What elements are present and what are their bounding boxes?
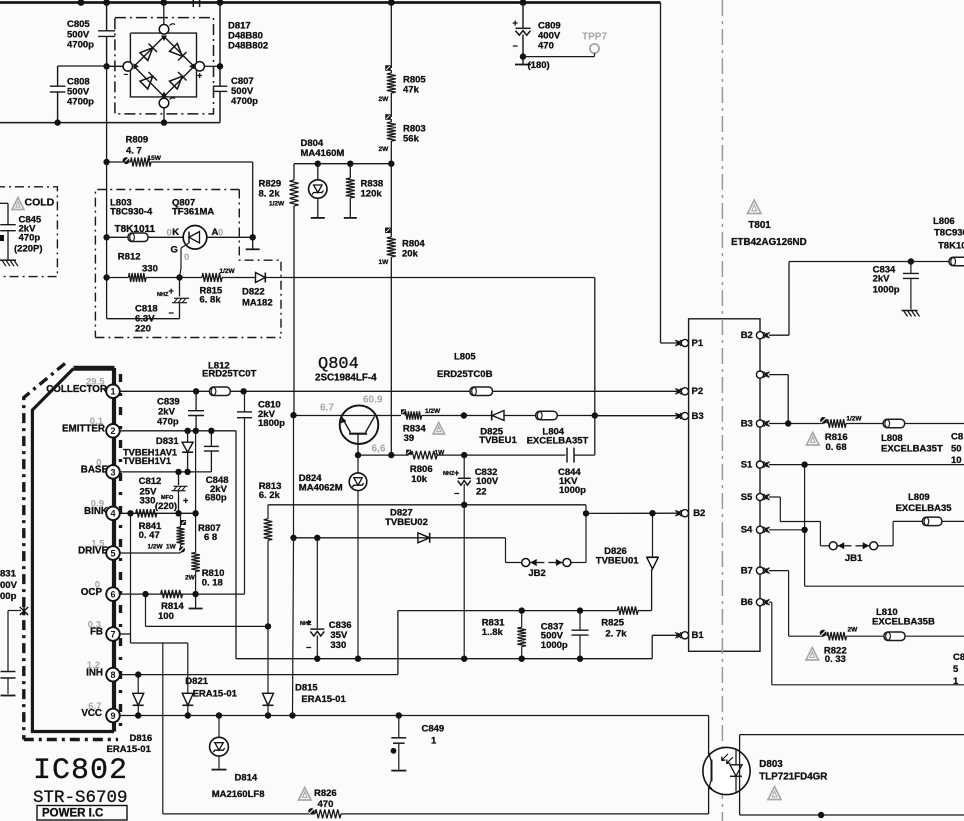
COLD dashed box [0, 187, 57, 277]
svg-text:6.7: 6.7 [320, 402, 334, 413]
svg-text:470: 470 [538, 41, 554, 52]
svg-text:FB: FB [90, 627, 103, 638]
resistor R813 [259, 481, 282, 627]
wire D822 net riser [594, 278, 596, 416]
svg-text:B6: B6 [741, 597, 753, 608]
svg-text:NHZ: NHZ [300, 621, 312, 627]
svg-text:K: K [172, 227, 179, 238]
wire pin9 VCC line [119, 715, 708, 717]
svg-text:POWER I.C: POWER I.C [42, 808, 103, 820]
svg-text:(220): (220) [155, 501, 177, 512]
resistor R810 [185, 553, 224, 595]
svg-text:R809: R809 [126, 135, 149, 146]
svg-text:+: + [169, 286, 174, 296]
wire common bottom line [236, 658, 652, 660]
node C807 top junction [217, 63, 223, 69]
pin unnamed secondary [756, 371, 769, 378]
svg-text:60.9: 60.9 [363, 394, 383, 405]
node bottom R831 [519, 656, 525, 662]
wire emitter vertical [235, 431, 237, 659]
node base net D827 line [290, 535, 296, 541]
svg-text:0: 0 [218, 228, 223, 239]
svg-text:1/2W: 1/2W [220, 268, 236, 275]
jumper JB2 [506, 538, 587, 579]
node top bus junction x106.6 [103, 0, 110, 6]
warning triangle COLD [12, 198, 24, 210]
inductor L806 [933, 216, 964, 266]
resistor R805 [379, 65, 427, 117]
label C8xx right edge top [951, 432, 963, 466]
svg-text:TPP7: TPP7 [582, 31, 607, 42]
wire base net down [293, 415, 295, 538]
diode bridge D817 diamond and diodes [134, 36, 195, 98]
svg-text:TVBEU02: TVBEU02 [385, 517, 428, 528]
svg-text:D822: D822 [242, 287, 265, 298]
svg-text:0. 33: 0. 33 [825, 654, 846, 665]
svg-text:DRIVE: DRIVE [78, 546, 108, 557]
diode D822 [242, 273, 273, 309]
svg-text:C812: C812 [139, 476, 162, 487]
wire x106 left rail down [106, 66, 108, 318]
node C832 bottom [461, 502, 467, 508]
wire B2 line [586, 512, 681, 514]
ground R810 [189, 594, 203, 608]
capacitor C812 [139, 472, 189, 513]
svg-text:B3: B3 [741, 418, 753, 429]
svg-text:4: 4 [110, 509, 115, 519]
svg-text:R826: R826 [314, 788, 337, 799]
svg-text:1: 1 [431, 736, 437, 747]
wire D827 line [294, 537, 506, 539]
svg-text:330: 330 [142, 264, 158, 275]
svg-text:C805: C805 [67, 19, 90, 30]
wire B3 secondary row [769, 423, 964, 425]
inductor L803 T8K1011 [103, 224, 183, 242]
svg-text:S4: S4 [741, 525, 753, 536]
wire secondary unnamed pin [769, 375, 788, 424]
node emitter R804 [388, 452, 394, 458]
label C8xx right edge bottom [953, 652, 964, 687]
capacitor C832 [443, 455, 499, 505]
wire FB down rail [162, 643, 164, 814]
svg-text:NHZ: NHZ [157, 292, 169, 298]
svg-text:1W: 1W [435, 450, 446, 457]
svg-text:6 8: 6 8 [204, 532, 217, 543]
svg-text:120k: 120k [361, 189, 383, 200]
svg-text:P1: P1 [692, 338, 704, 349]
pin 2 EMITTER [62, 416, 120, 437]
svg-text:00V: 00V [0, 580, 18, 591]
pin 6 OCP [81, 580, 120, 601]
svg-text:BASE: BASE [81, 465, 109, 476]
thyristor Q807 [167, 226, 253, 264]
svg-text:P2: P2 [692, 386, 704, 397]
node emitter detour R813 [265, 623, 271, 629]
svg-text:−: − [124, 70, 129, 79]
node Q807 anode junction [250, 234, 256, 240]
svg-text:5: 5 [110, 548, 115, 558]
resistor R838 [344, 161, 383, 218]
svg-text:T8K101: T8K101 [938, 240, 964, 251]
svg-text:C8: C8 [953, 652, 964, 663]
wire bottom line [163, 813, 709, 815]
label D817 [228, 21, 268, 52]
svg-text:4700p: 4700p [67, 40, 94, 51]
svg-text:+: + [513, 18, 518, 28]
test point TPP7 [523, 31, 607, 56]
inductor L804 [527, 411, 595, 446]
inductor L810 [846, 607, 964, 640]
node bottom C836 [314, 656, 320, 662]
label T801 [731, 220, 807, 248]
inductor L809 [896, 492, 964, 525]
wire VCC box corner [708, 716, 710, 815]
node pin4 R810 rail [192, 510, 198, 516]
svg-text:100: 100 [158, 611, 174, 622]
warning triangle R816 [807, 433, 820, 446]
svg-text:20k: 20k [402, 249, 419, 260]
svg-text:470p: 470p [19, 233, 41, 244]
svg-text:2W: 2W [848, 626, 859, 633]
node R812 C818 junction [176, 274, 182, 280]
svg-text:7: 7 [110, 629, 115, 639]
wire OCP detour [146, 594, 269, 626]
svg-text:TLP721FD4GR: TLP721FD4GR [759, 771, 827, 782]
ground Q807 anode [246, 237, 260, 249]
node bottom C832 net [461, 656, 467, 662]
svg-text:6. 2k: 6. 2k [259, 490, 281, 501]
capacitor C844 [464, 416, 595, 497]
node top bus junction x391.3 [388, 0, 395, 6]
svg-text:T8C930: T8C930 [934, 227, 964, 238]
svg-text:MA4160M: MA4160M [301, 148, 345, 159]
svg-text:L805: L805 [454, 352, 476, 363]
svg-text:00p: 00p [0, 591, 17, 602]
capacitor left edge [1, 611, 22, 696]
svg-text:D831: D831 [156, 436, 179, 447]
svg-text:MA2160LF8: MA2160LF8 [212, 789, 265, 800]
node emitter Q804 [355, 452, 361, 458]
wire emitter to R810 rail [195, 431, 197, 553]
svg-text:R825: R825 [601, 617, 624, 628]
svg-text:1..8k: 1..8k [482, 627, 504, 638]
wire B7 route [769, 571, 823, 637]
inductor L805 [437, 352, 493, 396]
svg-text:6. 8k: 6. 8k [200, 295, 222, 306]
capacitor C831 fragment labels [0, 569, 18, 603]
label COLD [25, 196, 55, 208]
node top bus junction x163.8 [160, 0, 167, 6]
diode D827 [385, 507, 430, 543]
svg-text:B2: B2 [693, 508, 705, 519]
svg-text:0. 47: 0. 47 [139, 530, 160, 541]
wire JB1 to L809 [878, 521, 923, 545]
svg-text:L809: L809 [908, 492, 930, 503]
svg-text:5: 5 [953, 664, 959, 675]
capacitor C818 [107, 278, 189, 335]
svg-text:B2: B2 [741, 330, 753, 341]
svg-text:B3: B3 [692, 411, 704, 422]
svg-text:G: G [171, 245, 178, 256]
pin B3 secondary [741, 418, 770, 429]
svg-text:9: 9 [110, 711, 115, 721]
svg-text:+: + [454, 468, 459, 478]
svg-text:B7: B7 [741, 565, 753, 576]
svg-text:ERA15-01: ERA15-01 [301, 694, 346, 705]
capacitor C807 [213, 3, 258, 123]
svg-text:1/2W: 1/2W [148, 544, 164, 551]
svg-text:0: 0 [167, 228, 172, 239]
wire B2 jumper riser [585, 505, 587, 563]
node VCC D815 [265, 712, 271, 718]
svg-text:680p: 680p [205, 493, 227, 504]
svg-text:OCP: OCP [81, 587, 103, 598]
wire D804 top rail [294, 163, 391, 165]
svg-text:EXCELBA35T: EXCELBA35T [527, 436, 589, 447]
diode bridge terminal right [195, 62, 220, 81]
wire primary feed [661, 3, 682, 344]
node R810 bottom [192, 591, 198, 597]
svg-text:4700p: 4700p [231, 96, 258, 107]
svg-text:10k: 10k [411, 474, 428, 485]
capacitor C834 [873, 262, 919, 310]
svg-text:1000p: 1000p [873, 285, 900, 296]
svg-text:R812: R812 [118, 252, 141, 263]
wire pin8 INH line [119, 674, 398, 676]
node pin6 branch [142, 591, 148, 597]
svg-text:TVBEU01: TVBEU01 [596, 555, 639, 566]
wire C832 net down [463, 505, 465, 659]
resistor R816 [820, 415, 862, 453]
svg-text:470: 470 [318, 799, 334, 810]
pin S1 secondary [741, 459, 770, 470]
diode D821 [182, 643, 237, 716]
wire R809 to Q807 anode [252, 162, 254, 237]
pin B2 secondary [741, 330, 770, 341]
wire S1 to S4 net [805, 465, 964, 587]
node C837 top [577, 607, 583, 613]
capacitor C810 [237, 391, 285, 594]
capacitor C805 [67, 3, 115, 67]
wire emitter row [358, 454, 409, 456]
pin B7 secondary [741, 565, 770, 576]
svg-text:470p: 470p [157, 417, 179, 428]
svg-text:JB2: JB2 [528, 568, 545, 579]
svg-text:831: 831 [0, 569, 17, 580]
svg-text:D816: D816 [130, 733, 153, 744]
diode D826 [596, 513, 658, 569]
node R803 bottom junction [388, 161, 394, 167]
svg-text:+: + [197, 71, 202, 81]
svg-text:D48B802: D48B802 [228, 41, 268, 52]
resistor R829 [151, 162, 299, 415]
node top bus junction x220 [217, 0, 224, 6]
svg-text:0. 18: 0. 18 [202, 577, 223, 588]
wire B3 primary line [595, 415, 681, 417]
diode D825 [464, 411, 536, 447]
node pin2 C839 [193, 428, 199, 434]
node bottom D824 [355, 656, 361, 662]
svg-text:S5: S5 [741, 492, 753, 503]
svg-text:ERD25TC0T: ERD25TC0T [202, 369, 257, 380]
capacitor series on top bus [193, 0, 199, 7]
svg-text:2: 2 [110, 426, 115, 436]
pin 3 BASE [81, 457, 120, 478]
node pin3 C812 [175, 469, 181, 475]
node bridge bottom junction [161, 119, 167, 125]
ground C845 [0, 260, 18, 266]
svg-text:0: 0 [184, 252, 189, 263]
svg-text:47k: 47k [403, 85, 420, 96]
pin B3 primary [675, 411, 703, 422]
svg-text:220: 220 [135, 324, 151, 335]
diode D804 zener [301, 138, 345, 218]
wire S5 route [769, 497, 829, 546]
IC802 solid outline [32, 368, 114, 732]
svg-text:TVBEH1V1: TVBEH1V1 [123, 456, 171, 466]
warning triangle R834 [433, 423, 445, 435]
resistor R809 [103, 135, 252, 167]
svg-text:D803: D803 [759, 759, 783, 770]
resistor R806 [406, 450, 464, 486]
svg-text:22: 22 [476, 487, 487, 498]
svg-text:EXCELBA35B: EXCELBA35B [872, 617, 935, 628]
svg-text:EMITTER: EMITTER [62, 424, 105, 435]
resistor R841 [136, 509, 177, 550]
svg-text:EXCELBA35T: EXCELBA35T [881, 443, 943, 454]
svg-text:1800p: 1800p [258, 418, 285, 429]
node L804 right [592, 412, 598, 418]
resistor R803 [379, 114, 426, 163]
svg-text:C849: C849 [422, 724, 445, 735]
svg-text:1/2W: 1/2W [425, 408, 441, 415]
svg-text:2. 7k: 2. 7k [605, 628, 627, 639]
pin S5 secondary [741, 492, 770, 503]
resistor R814 [158, 590, 184, 622]
wire base net to VCC [293, 538, 294, 716]
svg-text:2W: 2W [379, 96, 390, 103]
pin 8 INH [86, 660, 120, 681]
diode bridge terminal top [159, 3, 175, 35]
wire R813 top line [268, 504, 586, 506]
chassis star marker [20, 607, 28, 616]
wire pin7 FB line [119, 634, 188, 643]
svg-text:B1: B1 [692, 630, 705, 641]
pin 7 FB [88, 619, 120, 640]
svg-text:JB1: JB1 [845, 553, 863, 564]
node C834 top [908, 258, 914, 264]
svg-text:ETB42AG126ND: ETB42AG126ND [731, 237, 807, 248]
pin B1 primary [675, 630, 704, 641]
svg-text:−: − [169, 308, 174, 318]
resistor R815 [180, 268, 256, 306]
resistor R804 [379, 164, 426, 455]
resistor R831 [482, 611, 526, 659]
svg-text:50: 50 [951, 443, 962, 454]
svg-text:15W: 15W [148, 155, 162, 162]
node pin8 D816 [135, 671, 141, 677]
diode D824 zener [299, 455, 367, 659]
svg-text:39: 39 [404, 433, 415, 444]
svg-text:330: 330 [140, 496, 156, 507]
svg-text:MA4062M: MA4062M [299, 483, 343, 494]
svg-text:3: 3 [110, 467, 115, 477]
pin B6 secondary [741, 597, 770, 608]
node S1 branch [801, 461, 807, 467]
inductor L812 [202, 361, 257, 396]
wire pin3 base line [119, 471, 211, 473]
resistor R807 [177, 513, 221, 553]
svg-text:6,6: 6,6 [372, 443, 386, 454]
warning triangle R826 [299, 788, 312, 801]
wire pin6 OCP line [119, 593, 244, 595]
isolation barrier dash-dot [721, 0, 723, 821]
node emitter C832 [461, 452, 467, 458]
capacitor C848 [204, 431, 229, 504]
pin 9 VCC [81, 701, 119, 722]
svg-text:D821: D821 [185, 676, 208, 687]
wire collector line pin1 [119, 390, 681, 392]
warning triangle R822 [806, 648, 819, 661]
capacitor C849 [391, 712, 445, 770]
node R834 right [461, 412, 467, 418]
wire top AC bus [0, 1, 661, 4]
svg-text:1/2W: 1/2W [269, 201, 285, 208]
svg-text:C8: C8 [951, 432, 963, 443]
wire D822 output [265, 277, 595, 279]
resistor R825 [601, 569, 651, 639]
node B2 line junction [583, 510, 589, 516]
left edge fragment [0, 235, 4, 241]
label L803 [110, 198, 153, 218]
svg-text:COLD: COLD [25, 196, 55, 208]
svg-text:L806: L806 [933, 216, 955, 227]
resistor R812 [103, 252, 179, 283]
wire Q807 gate [180, 248, 182, 278]
svg-text:−: − [513, 41, 518, 51]
svg-text:COLLECTOR: COLLECTOR [46, 384, 107, 395]
node pin4 C812 [175, 510, 181, 516]
IC802 outer dash-dot border [24, 364, 121, 740]
wire pin5 line [119, 552, 180, 554]
ground C809 [515, 57, 550, 71]
wire B6 route [769, 602, 964, 685]
pin 5 DRIVE [78, 538, 120, 559]
diode D831 [123, 431, 193, 472]
svg-text:IC802: IC802 [33, 754, 128, 788]
label Q807 [172, 198, 214, 218]
node pin3 D831 [184, 469, 190, 475]
node D826 top [649, 510, 655, 516]
svg-text:1: 1 [110, 387, 115, 397]
wire INH riser [397, 611, 399, 675]
wire S4 row [769, 529, 805, 531]
svg-text:INH: INH [86, 667, 103, 678]
diode D816 [107, 675, 153, 755]
diode D815 [263, 626, 347, 715]
svg-text:ERD25TC0B: ERD25TC0B [437, 369, 493, 380]
node Q804 base junction [290, 412, 296, 418]
capacitor C808 [50, 66, 107, 123]
node L812 left [193, 388, 199, 394]
wire HV divider vertical [390, 3, 392, 69]
optocoupler D803 [703, 747, 827, 794]
label IC802 [33, 754, 128, 820]
wire pin4 to FB corner [130, 513, 132, 634]
svg-text:1/2W: 1/2W [846, 415, 862, 422]
transistor Q804 [294, 394, 402, 455]
node C808 bottom junction [54, 119, 60, 125]
